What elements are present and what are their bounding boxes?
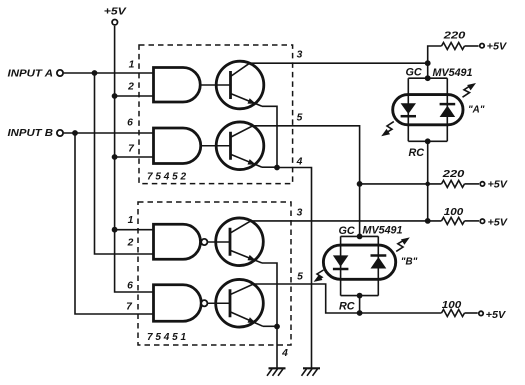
resistor R2 220 bbox=[442, 180, 465, 187]
junction emitter bus 75451 bbox=[274, 324, 280, 330]
svg-text:4: 4 bbox=[296, 157, 303, 168]
wire module A RC vertical bbox=[427, 141, 429, 221]
AND gate G1 (75452a) bbox=[154, 68, 201, 103]
+5V terminal (R2) bbox=[480, 180, 508, 191]
wire +5V vertical bus to pin 6 of 75451 bbox=[115, 26, 154, 292]
wire R4 to +5V bbox=[465, 312, 478, 314]
wire R1 to +5V bbox=[465, 45, 479, 47]
junction GC rail A bbox=[425, 75, 431, 81]
photon arrow B top-right bbox=[396, 240, 404, 252]
svg-text:GC: GC bbox=[339, 225, 355, 237]
svg-text:2: 2 bbox=[127, 238, 134, 249]
svg-text:1: 1 bbox=[128, 215, 134, 226]
svg-text:5: 5 bbox=[297, 112, 303, 123]
NAND gate G3 (75451a) bbox=[154, 224, 201, 259]
junction +5V/pin7 bbox=[112, 154, 118, 160]
+5V terminal (R1) bbox=[480, 42, 508, 53]
svg-text:"B": "B" bbox=[401, 256, 418, 268]
junction GC rail B bbox=[357, 234, 363, 240]
svg-text:INPUT B: INPUT B bbox=[8, 128, 54, 139]
LED A1 (cathode down) bbox=[401, 103, 416, 114]
svg-text:6: 6 bbox=[127, 281, 133, 292]
wire pin 4 (75451) to ground bbox=[276, 327, 278, 368]
dashed IC boundary 75452 bbox=[139, 45, 293, 184]
INPUT A terminal bbox=[8, 69, 64, 80]
+5V terminal (R4) bbox=[479, 310, 507, 321]
junction +5V/pin2 bbox=[112, 93, 118, 99]
svg-text:5: 5 bbox=[297, 271, 303, 282]
LED B2 (cathode up) bbox=[371, 254, 387, 257]
photon arrow A bottom-left bbox=[386, 122, 394, 134]
wire INPUT B branch to pin 7 of 75451 bbox=[75, 133, 154, 314]
dashed IC boundary 75451 bbox=[138, 202, 291, 345]
INPUT B terminal bbox=[8, 128, 64, 139]
AND gate G2 (75452b) bbox=[154, 128, 201, 164]
wire Q2 emitter to emitter bus bbox=[262, 166, 277, 168]
junction RC-A / R2 bbox=[425, 182, 430, 187]
module B body bbox=[323, 245, 395, 279]
wire pin 5 (75452) to module B GC bbox=[253, 126, 360, 237]
wire INPUT A branch to pin 2 of 75451 bbox=[95, 73, 154, 254]
wire RC-B to R4 rail bbox=[359, 296, 361, 313]
module A body bbox=[393, 95, 463, 125]
wire R2 rail bbox=[360, 183, 442, 185]
transistor Q4 bbox=[216, 279, 264, 327]
LED A anode wires bbox=[408, 78, 447, 141]
svg-text:6: 6 bbox=[127, 118, 133, 129]
GC rail B bbox=[341, 235, 379, 237]
junction +5V/pin1 bbox=[112, 227, 118, 233]
G4 output bubble bbox=[201, 300, 207, 306]
photon arrow B bottom-left bbox=[316, 270, 323, 280]
LED module U3 MV5491 "B" bbox=[312, 224, 418, 313]
ground (75451) bbox=[267, 368, 286, 376]
wire R1 node vertical bbox=[428, 46, 442, 78]
junction emitter bus 75452 bbox=[274, 165, 280, 171]
svg-text:100: 100 bbox=[444, 206, 464, 218]
svg-text:2: 2 bbox=[127, 82, 134, 93]
junction RC-B / R4 rail bbox=[357, 310, 363, 316]
resistor R4 100 bbox=[442, 310, 465, 317]
svg-text:+5V: +5V bbox=[104, 6, 127, 18]
+5V supply terminal bbox=[104, 6, 127, 25]
wire +5V branch to pin 1 of 75451 bbox=[115, 229, 154, 231]
resistor R3 100 bbox=[442, 217, 465, 224]
svg-text:+5V: +5V bbox=[487, 42, 508, 53]
wire Q4 emitter to emitter bus bbox=[263, 325, 277, 327]
LED B anode wires bbox=[341, 236, 379, 295]
wire pin 5 (75451) collector to R4 rail bbox=[254, 284, 442, 313]
photon arrow A top-right bbox=[463, 86, 471, 98]
svg-text:220: 220 bbox=[443, 30, 466, 42]
junction RC-A / pin3 75451 bbox=[425, 218, 431, 224]
svg-text:1: 1 bbox=[129, 60, 135, 71]
svg-text:75452: 75452 bbox=[147, 172, 189, 183]
svg-text:RC: RC bbox=[409, 147, 425, 159]
LED module U2 MV5491 "A" bbox=[379, 66, 485, 158]
svg-text:220: 220 bbox=[442, 168, 465, 180]
+5V terminal (R3) bbox=[480, 218, 508, 229]
LED A2 (cathode up) bbox=[440, 103, 456, 106]
svg-text:RC: RC bbox=[339, 300, 355, 312]
wire R3 to +5V bbox=[465, 220, 480, 222]
svg-text:+5V: +5V bbox=[486, 310, 507, 321]
svg-text:INPUT A: INPUT A bbox=[8, 69, 54, 80]
wire +5V branch to pin 7 bbox=[115, 156, 154, 158]
transistor Q3 bbox=[216, 218, 264, 266]
wire Q1 emitter to emitter bus bbox=[262, 106, 277, 167]
svg-text:GC: GC bbox=[406, 66, 422, 78]
svg-text:+5V: +5V bbox=[488, 180, 509, 191]
svg-text:4: 4 bbox=[281, 348, 288, 359]
RC rail A bbox=[408, 140, 447, 142]
svg-text:MV5491: MV5491 bbox=[433, 67, 473, 79]
wire G2 output to Q2 base bbox=[201, 145, 231, 147]
wire INPUT A to pin 1 bbox=[64, 72, 154, 74]
wire INPUT B to pin 6 bbox=[64, 132, 154, 134]
wire G1 output to Q1 base bbox=[200, 84, 230, 86]
svg-text:75451: 75451 bbox=[147, 332, 189, 343]
svg-text:"A": "A" bbox=[468, 104, 485, 116]
junction R2 rail bbox=[357, 181, 363, 187]
svg-text:MV5491: MV5491 bbox=[363, 224, 403, 236]
junction RC rail B bbox=[357, 293, 363, 299]
wire Q3 emitter to emitter bus bbox=[262, 263, 277, 327]
junction INPUT B bbox=[72, 130, 78, 136]
wire pin 3 (75452) collector to R1 node bbox=[250, 62, 428, 64]
wire pin 4 (75452) to ground bbox=[277, 168, 312, 368]
wire R2 to +5V bbox=[465, 183, 480, 185]
svg-text:3: 3 bbox=[297, 50, 303, 61]
svg-text:+5V: +5V bbox=[488, 218, 509, 229]
wire +5V branch to pin 2 bbox=[115, 95, 154, 97]
NAND gate G4 (75451b) bbox=[154, 285, 202, 322]
junction RC rail A bbox=[425, 138, 431, 144]
resistor R1 220 bbox=[442, 43, 465, 50]
RC rail B bbox=[341, 295, 379, 297]
wire pin 3 (75451) collector to R3 bbox=[251, 220, 442, 222]
G3 output bubble bbox=[201, 239, 207, 245]
junction pin3/R1 bbox=[425, 60, 431, 66]
wire G4 output to Q4 base bbox=[208, 302, 230, 304]
LED B1 (cathode down) bbox=[333, 255, 349, 266]
GC rail A bbox=[408, 77, 447, 79]
transistor Q1 bbox=[216, 61, 264, 109]
transistor Q2 bbox=[216, 122, 264, 170]
junction INPUT A bbox=[92, 70, 98, 76]
ground (75452) bbox=[302, 368, 321, 376]
svg-text:100: 100 bbox=[442, 299, 462, 311]
wire G3 output to Q3 base bbox=[208, 241, 230, 243]
svg-text:3: 3 bbox=[297, 208, 303, 219]
